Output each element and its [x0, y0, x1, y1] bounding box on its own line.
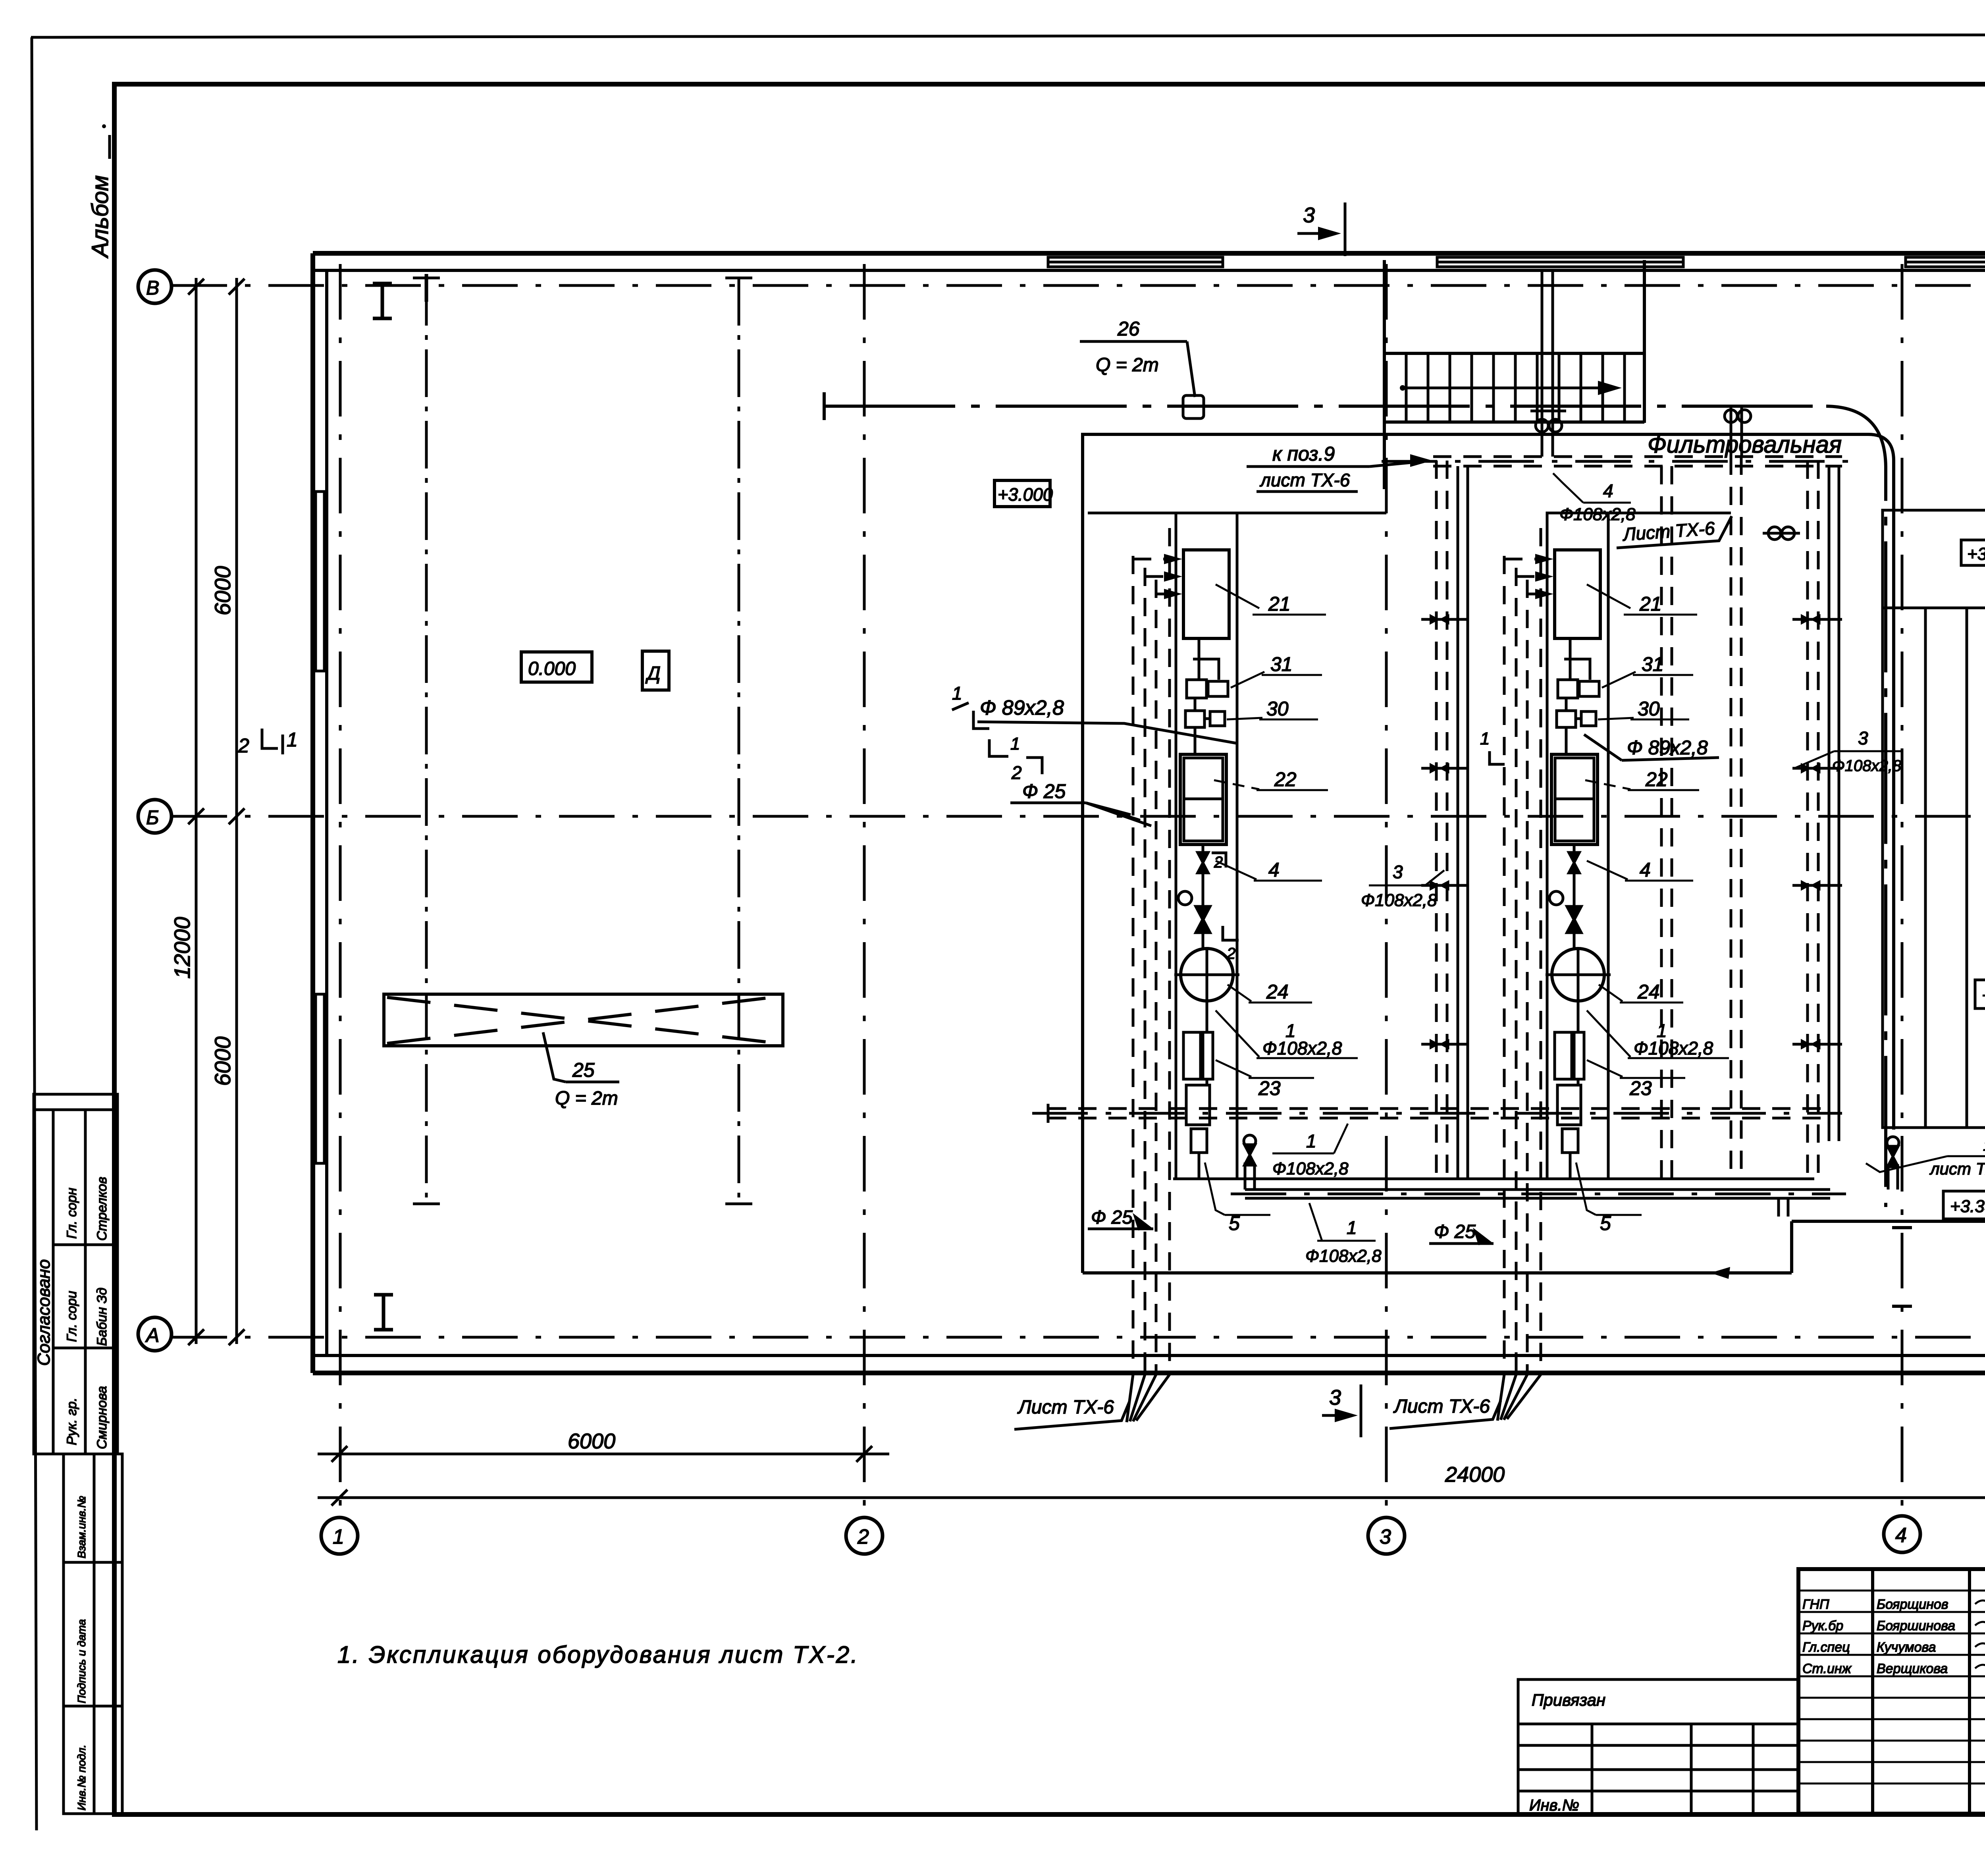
axis 4 vertical [1901, 264, 1904, 1516]
svg-text:Ф 25: Ф 25 [1091, 1207, 1133, 1228]
right equipment cluster (mirror by shift) [1504, 513, 1729, 1373]
svg-text:1: 1 [333, 1525, 344, 1548]
svg-text:Лист ТХ-6: Лист ТХ-6 [1017, 1397, 1114, 1418]
axis circle A [138, 1317, 172, 1351]
svg-text:Кучумова: Кучумова [1877, 1640, 1936, 1655]
svg-text:12000: 12000 [170, 917, 195, 979]
svg-text:Гл. сори: Гл. сори [64, 1291, 79, 1342]
svg-text:Q = 2т: Q = 2т [1096, 355, 1159, 376]
svg-text:23: 23 [1258, 1077, 1281, 1099]
svg-text:Бабин Зд: Бабин Зд [94, 1288, 110, 1346]
svg-text:6000: 6000 [568, 1429, 615, 1453]
axis circle 3 [1368, 1517, 1405, 1554]
svg-text:+3.000: +3.000 [998, 484, 1053, 505]
privyazan table [1518, 1679, 1798, 1814]
dim line 12000 [195, 278, 198, 1344]
tank outline [1176, 513, 1237, 1179]
svg-text:Ф 25: Ф 25 [1022, 780, 1066, 802]
pipe header 2 (right of right cluster) [1792, 461, 1842, 1179]
bottom wall outer [313, 1371, 1985, 1375]
bottom wall inner [313, 1354, 1985, 1357]
axis circle Б [138, 800, 172, 833]
svg-text:ГНП: ГНП [1802, 1597, 1829, 1612]
svg-text:Бояршинова: Бояршинова [1877, 1618, 1955, 1633]
level +2.350 [1975, 980, 1985, 1008]
left wall window band 2 [316, 994, 324, 1163]
risers with flanges top left cluster [1530, 270, 1566, 457]
svg-text:Ф108х2,8: Ф108х2,8 [1272, 1159, 1349, 1178]
svg-text:Рук. гр.: Рук. гр. [64, 1398, 79, 1445]
svg-text:Ф 89х2,8: Ф 89х2,8 [1627, 737, 1708, 759]
svg-text:Д: Д [645, 663, 661, 684]
bottom collector (solid pair) [1231, 1135, 1899, 1217]
vent equipment block [1769, 510, 1985, 1128]
top pipe run (dashed pair) [1382, 457, 1850, 466]
svg-text:Фильтровальная: Фильтровальная [1648, 431, 1842, 458]
svg-text:+2.350: +2.350 [1982, 986, 1985, 1005]
small section mark 2 lower [1212, 853, 1226, 868]
stair [1384, 260, 1644, 489]
svg-text:Смирнова: Смирнова [94, 1386, 110, 1449]
svg-text:4: 4 [1603, 480, 1613, 501]
top wall window band 1 [1048, 257, 1223, 267]
svg-text:Привязан: Привязан [1532, 1691, 1605, 1709]
svg-text:А: А [145, 1324, 159, 1346]
svg-text:26: 26 [1117, 318, 1140, 340]
svg-text:1: 1 [287, 729, 298, 751]
mid pipe run (dashed pair) [1032, 1104, 1842, 1123]
unit 30 [1185, 711, 1204, 727]
axis circle B [138, 270, 172, 303]
pump 24 [1181, 949, 1233, 1001]
axis 2 vertical [863, 264, 866, 1516]
svg-text:6000: 6000 [210, 1036, 235, 1086]
svg-text:Подпись и дата: Подпись и дата [75, 1619, 88, 1703]
outer border left [32, 37, 37, 1830]
dim line 24000 (axes 1-5) [318, 1496, 1985, 1499]
top wall window band 2 (over stair) [1437, 257, 1683, 267]
svg-text:31: 31 [1270, 653, 1293, 675]
svg-text:5: 5 [1229, 1212, 1240, 1234]
signature squiggles [1975, 1597, 1985, 1671]
crane bridge (pos.25) [384, 994, 783, 1046]
svg-text:4: 4 [1268, 859, 1280, 881]
svg-text:3: 3 [1303, 203, 1315, 227]
svg-text:1: 1 [1010, 734, 1020, 754]
pipe header 1 (between clusters) [1421, 461, 1469, 1179]
svg-text:22: 22 [1274, 768, 1297, 791]
svg-text:2: 2 [1011, 762, 1022, 783]
hoist box 26 [1183, 395, 1204, 418]
risers with flanges top right cluster [1725, 405, 1751, 457]
svg-text:Ф108х2,8: Ф108х2,8 [1361, 891, 1437, 910]
svg-text:В: В [146, 277, 159, 299]
svg-text:24: 24 [1266, 981, 1289, 1003]
level 0.000 [521, 652, 592, 682]
crane rail left [413, 274, 440, 1205]
svg-text:3: 3 [1393, 862, 1403, 882]
pit bottom line [1173, 1178, 1814, 1180]
dashed pipe bundle [1133, 528, 1174, 1373]
label 26 Q=2t [1080, 341, 1195, 397]
svg-text:Ф108х2,8: Ф108х2,8 [1262, 1038, 1342, 1059]
svg-text:16: 16 [1983, 1137, 1985, 1154]
level +3.335 [1943, 1191, 1985, 1219]
stair direction arrow [1400, 381, 1622, 395]
svg-text:2: 2 [238, 735, 249, 757]
axis circle 1 [321, 1517, 358, 1554]
svg-text:Инв.№: Инв.№ [1529, 1797, 1579, 1814]
svg-text:Ф108х2,8: Ф108х2,8 [1832, 757, 1902, 775]
svg-text:2: 2 [857, 1525, 869, 1548]
svg-text:+3.335: +3.335 [1950, 1197, 1985, 1216]
column bottom-left [374, 1295, 393, 1330]
top wall inner line [313, 269, 1985, 272]
svg-text:3: 3 [1380, 1525, 1391, 1548]
column top-left [373, 283, 392, 318]
pipe down from 22 with fittings [1202, 844, 1204, 949]
svg-text:лист ТХ-6: лист ТХ-6 [1259, 470, 1350, 490]
approval table (Soglasovano) [34, 1094, 118, 1454]
svg-text:Ф108х2,8: Ф108х2,8 [1559, 505, 1636, 524]
svg-text:Ф 25: Ф 25 [1434, 1221, 1476, 1242]
svg-text:Гл.спец: Гл.спец [1802, 1640, 1850, 1655]
svg-text:2: 2 [1226, 945, 1235, 962]
signatures rows [1802, 1597, 1985, 1676]
svg-text:1. Экспликация оборудования: 1. Экспликация оборудования лист ТХ-2. [337, 1641, 859, 1668]
svg-text:Согласовано: Согласовано [34, 1259, 54, 1366]
svg-text:Гл. сорн: Гл. сорн [64, 1188, 79, 1239]
svg-text:Б: Б [146, 806, 159, 829]
apparatus 22 [1194, 727, 1197, 754]
svg-text:Боярщинов: Боярщинов [1877, 1597, 1948, 1612]
axis circle 2 [846, 1517, 883, 1554]
dim line 6000 (axes 1-2) [318, 1453, 889, 1456]
lower fitting [1186, 1085, 1210, 1125]
svg-text:Ф108х2,8: Ф108х2,8 [1305, 1246, 1382, 1266]
box D [642, 651, 669, 690]
level +3.935 [1961, 540, 1985, 565]
crane rail right [725, 278, 752, 1205]
svg-text:Рук.бр: Рук.бр [1802, 1618, 1843, 1633]
svg-text:21: 21 [1268, 593, 1291, 615]
top wall window band 3 [1906, 257, 1985, 267]
labels of cluster [1205, 584, 1358, 1215]
svg-text:24000: 24000 [1445, 1463, 1505, 1487]
dim ticks [188, 279, 204, 295]
svg-text:3: 3 [1329, 1386, 1341, 1409]
svg-text:1: 1 [1306, 1131, 1316, 1151]
axis Б horizontal [172, 815, 1985, 818]
svg-text:1: 1 [1480, 729, 1490, 748]
left wall inner [325, 270, 328, 1355]
axis 3 vertical [1385, 264, 1388, 1516]
svg-text:Инв.№ подл.: Инв.№ подл. [75, 1745, 88, 1810]
svg-text:3: 3 [1858, 728, 1868, 748]
svg-text:Лист ТХ-6: Лист ТХ-6 [1393, 1396, 1490, 1417]
svg-text:25: 25 [572, 1059, 595, 1081]
outer border top [31, 34, 1985, 37]
svg-text:лист ТХ-6: лист ТХ-6 [1929, 1159, 1985, 1178]
svg-text:0.000: 0.000 [528, 658, 576, 679]
left wall window band 1 [316, 492, 324, 671]
svg-text:30: 30 [1266, 698, 1289, 720]
lower stamp strip [64, 1454, 122, 1814]
svg-text:Альбом: Альбом [87, 175, 113, 258]
svg-text:Ст.инж: Ст.инж [1802, 1661, 1852, 1676]
axis 1 vertical [339, 264, 342, 1516]
top wall outer line [313, 251, 1985, 256]
unit 23 [1183, 1032, 1201, 1079]
axis B horizontal [172, 284, 1985, 287]
left wall outer [310, 253, 315, 1373]
album vertical text [87, 124, 113, 258]
apparatus 21 [1183, 550, 1229, 638]
axis circle 4 [1884, 1516, 1920, 1552]
level +3.000 [994, 480, 1050, 507]
middle dashed pipe pair [1661, 457, 1741, 1179]
svg-text:2: 2 [1214, 854, 1223, 871]
svg-text:Стрелков: Стрелков [94, 1177, 110, 1241]
axis A horizontal [172, 1336, 1985, 1339]
unit 31 [1187, 680, 1206, 698]
svg-text:Q = 2т: Q = 2т [555, 1088, 618, 1109]
svg-text:Верщикова: Верщикова [1877, 1661, 1948, 1676]
svg-text:6000: 6000 [210, 566, 235, 615]
svg-text:Взам.инв.№: Взам.инв.№ [75, 1496, 88, 1558]
label 25 Q=2t [543, 1032, 619, 1082]
svg-text:Ф 89х2,8: Ф 89х2,8 [980, 696, 1064, 719]
svg-text:4: 4 [1895, 1524, 1907, 1547]
svg-text:к поз.9: к поз.9 [1272, 443, 1335, 465]
svg-text:1: 1 [1347, 1217, 1357, 1238]
dim line 6000+6000 [235, 278, 238, 1344]
svg-text:1: 1 [952, 683, 962, 704]
flange pair inside filter room [1763, 527, 1800, 540]
svg-text:+3.935: +3.935 [1967, 544, 1985, 564]
pit top line right of tanks [1237, 512, 1386, 515]
